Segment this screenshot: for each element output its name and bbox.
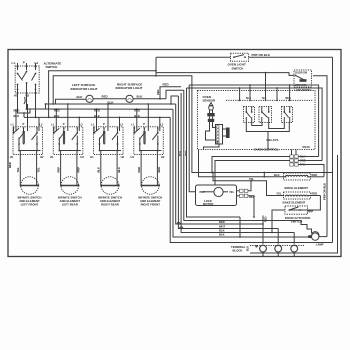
element 3 lead wires color BLK (100, 159, 102, 186)
wire lower distribution (53, 76, 332, 173)
svg-text:P: P (23, 122, 25, 126)
svg-text:RED: RED (163, 83, 169, 87)
svg-text:RED: RED (156, 89, 160, 95)
relay output wires (246, 123, 289, 132)
svg-text:BROIL ELEMENT: BROIL ELEMENT (285, 186, 309, 190)
wire bus RED y109 (27, 108, 174, 110)
infinite switch 1 dashed box (13, 127, 43, 155)
svg-text:BLK: BLK (219, 232, 225, 236)
wire BLK row to long bus (212, 157, 290, 173)
svg-text:L2: L2 (160, 122, 164, 126)
infinite switch 4 dashed box (134, 127, 164, 155)
door switch left wire (272, 210, 285, 233)
oven relay 2 dashed box (259, 107, 272, 123)
svg-text:DOOR SW: DOOR SW (295, 72, 307, 75)
svg-text:L1: L1 (51, 122, 55, 126)
alternate switch L2 wire (35, 93, 37, 117)
surface unit 2 feed wires (55, 109, 57, 131)
wire bake RED to door switch (312, 196, 320, 211)
svg-text:RED: RED (102, 94, 108, 98)
svg-text:RED: RED (286, 97, 291, 100)
svg-text:RED: RED (312, 191, 318, 195)
lock switch right wire to PRP OR BLK drop (313, 76, 327, 237)
wire BLK from right indicator to riser (133, 98, 166, 100)
relay supply dashed line (226, 99, 313, 101)
svg-text:L1: L1 (91, 122, 95, 126)
left surface indicator light (86, 95, 93, 102)
svg-text:RED: RED (157, 167, 161, 173)
alternate switch H2 wire (26, 93, 28, 109)
oven control dashed enclosure (198, 91, 316, 150)
vertical bus wire H to lock motor PRP (189, 85, 195, 192)
svg-text:RED: RED (94, 108, 100, 112)
wire RED between indicator lights (93, 98, 126, 100)
alternate switch contacts (17, 63, 19, 70)
svg-text:YEL: YEL (276, 192, 282, 196)
svg-text:L1,: L1, (12, 61, 17, 65)
wire from G down to lamp rail (239, 217, 241, 237)
svg-text:SENSOR: SENSOR (203, 99, 217, 103)
oven relay 3 dashed box (282, 107, 293, 123)
lamp over-arc (312, 232, 319, 237)
svg-text:BLK: BLK (77, 95, 84, 99)
broil element coil (284, 173, 311, 180)
door lock switch dashed box (294, 70, 312, 87)
svg-text:P: P (143, 122, 145, 126)
control output connector BLK RED TAN (290, 155, 294, 158)
svg-text:H2: H2 (40, 155, 44, 159)
svg-text:RED: RED (263, 216, 267, 222)
svg-text:YEL: YEL (36, 167, 40, 173)
surface element 4 dashed circle (142, 177, 160, 195)
lamp wire staircase (250, 221, 312, 234)
lock motor circle (214, 187, 223, 196)
svg-text:RED: RED (8, 162, 12, 168)
terminal block left blob (255, 245, 257, 247)
svg-text:RIGHT REAR: RIGHT REAR (101, 202, 119, 206)
svg-text:L2: L2 (80, 122, 84, 126)
svg-text:BLK: BLK (97, 167, 101, 173)
svg-text:RED: RED (134, 108, 140, 112)
svg-text:MOTOR: MOTOR (203, 202, 213, 206)
wire to door lock switch (156, 73, 294, 76)
svg-text:BLK: BLK (246, 97, 251, 100)
svg-text:H2: H2 (80, 155, 84, 159)
svg-text:P: P (103, 122, 105, 126)
svg-text:LEFT FRONT: LEFT FRONT (21, 202, 39, 206)
wire RED riser to bus E (160, 87, 181, 99)
svg-text:RED: RED (312, 173, 318, 177)
svg-text:RED: RED (219, 220, 225, 224)
svg-text:BLK: BLK (54, 114, 60, 118)
svg-text:H2: H2 (121, 155, 125, 159)
wire staircase from alternate switch to left indicator (18, 93, 86, 113)
door activated switch dashed box (285, 206, 308, 214)
svg-text:BLOCK: BLOCK (233, 249, 243, 253)
surface element 2 dashed circle (61, 177, 79, 195)
lock motor box (196, 185, 237, 206)
svg-text:SWITCH: SWITCH (46, 65, 58, 69)
wire RED row to lock motor area (215, 161, 290, 186)
svg-text:RELAYS: RELAYS (267, 138, 279, 142)
svg-text:BLK: BLK (94, 114, 100, 118)
svg-text:H1: H1 (50, 155, 54, 159)
wire from connector to box edge (204, 144, 220, 150)
surface element 1 dashed circle (21, 177, 39, 195)
wire PRP OR BLK top (156, 56, 231, 58)
alternate switch dashed enclosure (15, 66, 39, 93)
svg-text:BLK: BLK (137, 94, 144, 98)
svg-text:H1: H1 (10, 155, 14, 159)
infinite switch 4 inner wires (143, 131, 145, 143)
svg-text:H1: H1 (90, 155, 94, 159)
infinite switch 4 contacts (133, 128, 135, 130)
right side drop wire (332, 57, 334, 242)
svg-text:PRP OR BLK: PRP OR BLK (252, 53, 271, 57)
svg-text:RED: RED (14, 108, 20, 112)
infinite switch 2 dashed box (53, 127, 83, 155)
oven sensor bulb (209, 103, 213, 106)
oven sensor body (207, 113, 214, 116)
svg-text:INDICATOR LIGHT: INDICATOR LIGHT (71, 87, 98, 91)
BLK bus left riser (23, 113, 25, 117)
svg-text:YEL: YEL (16, 167, 20, 173)
wire from oven light switch drop to alternate switch area (49, 71, 156, 118)
terminal block dashed line (250, 245, 304, 247)
surface element 3 dashed circle (101, 177, 119, 195)
infinite switch 3 inner wires (103, 131, 105, 143)
surface unit 3 feed wires (96, 109, 98, 131)
wire riser to bus F (166, 90, 184, 99)
svg-text:BLK: BLK (117, 167, 121, 173)
wire BLK to broil element (199, 150, 286, 177)
control board connector strip (216, 125, 223, 145)
svg-text:RED: RED (54, 108, 60, 112)
outer border of wiring diagram (8, 50, 341, 257)
svg-text:LAMP: LAMP (316, 242, 324, 246)
svg-text:L1: L1 (131, 122, 135, 126)
svg-text:INDICATOR LIGHT: INDICATOR LIGHT (116, 86, 143, 90)
svg-text:L1: L1 (11, 122, 15, 126)
svg-text:BLK: BLK (219, 228, 225, 232)
wire hops at bottom bus (177, 222, 180, 224)
svg-text:YEL: YEL (229, 190, 235, 194)
wire riser to bus D (171, 96, 178, 104)
infinite switch 1 contacts (13, 128, 15, 130)
vertical bus wire G (187, 88, 241, 217)
bottom inner wire (250, 155, 338, 253)
svg-text:PRP: PRP (57, 167, 61, 173)
svg-text:RIGHT FRONT: RIGHT FRONT (141, 202, 161, 206)
svg-text:LEFT REAR: LEFT REAR (62, 202, 78, 206)
vertical bus wire F to lamp staircase (184, 90, 250, 220)
svg-text:BAKE ELEMENT: BAKE ELEMENT (283, 201, 306, 205)
infinite switch 1 inner wires (22, 131, 24, 143)
vertical bus wire A to bottom rail (170, 117, 332, 242)
lamp right wire (319, 236, 327, 238)
svg-text:PRP: PRP (77, 167, 81, 173)
surface unit 1 feed wires (15, 109, 17, 131)
door activated switch contact (288, 209, 290, 211)
surface unit 4 feed wires (136, 109, 138, 131)
oven relay 1 dashed box (244, 107, 255, 123)
lamp (312, 233, 319, 240)
svg-text:P: P (23, 61, 25, 65)
svg-text:BLK: BLK (134, 114, 140, 118)
vertical bus wire E to terminal 3 BLK (181, 93, 294, 233)
oven sensor leads (209, 116, 211, 118)
infinite switch 2 contacts (53, 128, 55, 130)
wire bus P-line y104 (46, 103, 176, 105)
svg-text:WHT: WHT (219, 224, 225, 228)
svg-text:L2: L2 (120, 122, 124, 126)
svg-text:BLK: BLK (274, 173, 280, 177)
svg-text:BLK: BLK (14, 114, 20, 118)
terminal feed wires (262, 216, 264, 244)
wires from control to connector (291, 150, 293, 155)
bake element coil (284, 192, 311, 199)
element 1 lead wires color YEL (19, 159, 21, 186)
wire YEL to bake element (213, 173, 284, 196)
connector black bar (226, 128, 230, 139)
svg-text:SWITCH: SWITCH (232, 66, 244, 70)
vertical bus wire D to terminal 2 WHT (178, 96, 278, 229)
bus line y88 to RED row (187, 88, 323, 161)
svg-text:RED: RED (137, 167, 141, 173)
oven light switch dashed box (231, 53, 249, 61)
wire bus BLK y117 (24, 116, 170, 118)
infinite switch 2 inner wires (62, 131, 64, 143)
element 4 lead wires color RED (140, 159, 142, 186)
svg-text:H2: H2 (161, 155, 165, 159)
svg-text:YEL: YEL (262, 97, 267, 100)
svg-text:H1: H1 (131, 155, 135, 159)
svg-text:OVEN CONTROL: OVEN CONTROL (254, 148, 279, 152)
svg-text:L2: L2 (39, 122, 43, 126)
relay feed wires (239, 88, 241, 100)
svg-text:RS1C: RS1C (303, 145, 310, 149)
svg-text:PRP OR BLK: PRP OR BLK (323, 183, 327, 200)
svg-text:BLK: BLK (247, 246, 250, 251)
bus line y85 to BLK row (189, 85, 318, 157)
element 2 lead wires color PRP (60, 159, 62, 186)
right surface indicator light (126, 95, 133, 102)
vertical bus wire C to terminal 1 RED (176, 104, 263, 224)
vertical bus wire B to lamp rail (173, 109, 312, 237)
infinite switch 3 dashed box (94, 127, 124, 155)
svg-text:P: P (63, 122, 65, 126)
infinite switch 3 contacts (93, 128, 95, 130)
